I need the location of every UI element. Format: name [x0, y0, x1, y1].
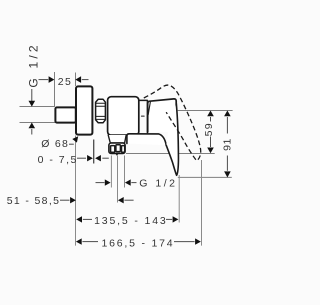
escutcheon: [76, 86, 92, 134]
dim G1/2 bottom arrows: [96, 182, 105, 184]
svg-text:G 1/2: G 1/2: [27, 42, 41, 87]
cartridge ring section: [139, 100, 147, 132]
lever white fill (masks lines behind): [166, 104, 178, 176]
grip slant line: [148, 102, 150, 115]
svg-text:25: 25: [58, 76, 73, 88]
extension line outlet centerline: [117, 156, 119, 203]
svg-text:0 - 7,5: 0 - 7,5: [38, 154, 78, 166]
wall supply pipe: [55, 107, 75, 122]
svg-text:G 1/2: G 1/2: [139, 177, 177, 189]
extension line wall face: [54, 72, 56, 107]
extension line escutcheon front lower (long): [75, 136, 77, 246]
dim G1/2 left: up arrow: [31, 129, 33, 135]
cartridge joint tick: [141, 115, 144, 117]
extension line lever tip (91 dim): [178, 176, 232, 178]
leader Ø68: [69, 143, 74, 145]
handle grip: [148, 99, 177, 132]
outlet nipple: [115, 154, 118, 156]
svg-text:51 - 58,5: 51 - 58,5: [7, 195, 61, 207]
outlet nut flats: [111, 146, 115, 153]
extension line escutcheon front top: [75, 73, 77, 87]
svg-text:135,5 - 143: 135,5 - 143: [94, 215, 167, 227]
main body: [108, 97, 139, 135]
outlet taper: [108, 135, 126, 143]
dim 25: right arrow at escutcheon: [75, 76, 81, 83]
dim 135.5-143 arrows: [76, 216, 82, 222]
outlet hose nut: [109, 143, 125, 153]
svg-text:166,5 - 174: 166,5 - 174: [102, 237, 175, 249]
extension line outlet thread right: [124, 156, 126, 188]
lever (solid position): [166, 104, 178, 176]
extension line outlet thread left: [110, 156, 112, 188]
dim 166.5-174 arrows: [76, 238, 82, 244]
dim G1/2 left: down arrow: [31, 89, 33, 101]
extension line pipe top: [20, 106, 56, 108]
svg-text:59: 59: [203, 122, 215, 136]
svg-text:Ø 68: Ø 68: [41, 138, 69, 150]
dim 91 vertical: [224, 111, 231, 117]
fixture group: [55, 86, 178, 175]
dim 51-58.5 arrows: [60, 199, 70, 201]
lower skirt: [127, 134, 166, 145]
adjustment nut (ribbed): [96, 99, 106, 123]
lever dashed (raised position): [144, 85, 201, 161]
dim 59 vertical: [207, 111, 214, 117]
svg-text:91: 91: [222, 138, 234, 151]
extension line outlet bottom (59 dim): [126, 153, 215, 155]
extension lines 0-7.5 pair: [93, 140, 95, 164]
extension line pipe bottom: [20, 122, 56, 124]
extension line solid lever right (135.5-143): [178, 175, 180, 223]
extension line dashed lever right (166.5-174): [201, 160, 203, 246]
extension line handle top (right side): [178, 110, 233, 112]
dim 25: left arrow at wall: [39, 79, 49, 81]
nut ribs: [96, 103, 105, 119]
dim 0-7.5 butterfly: [77, 157, 86, 159]
